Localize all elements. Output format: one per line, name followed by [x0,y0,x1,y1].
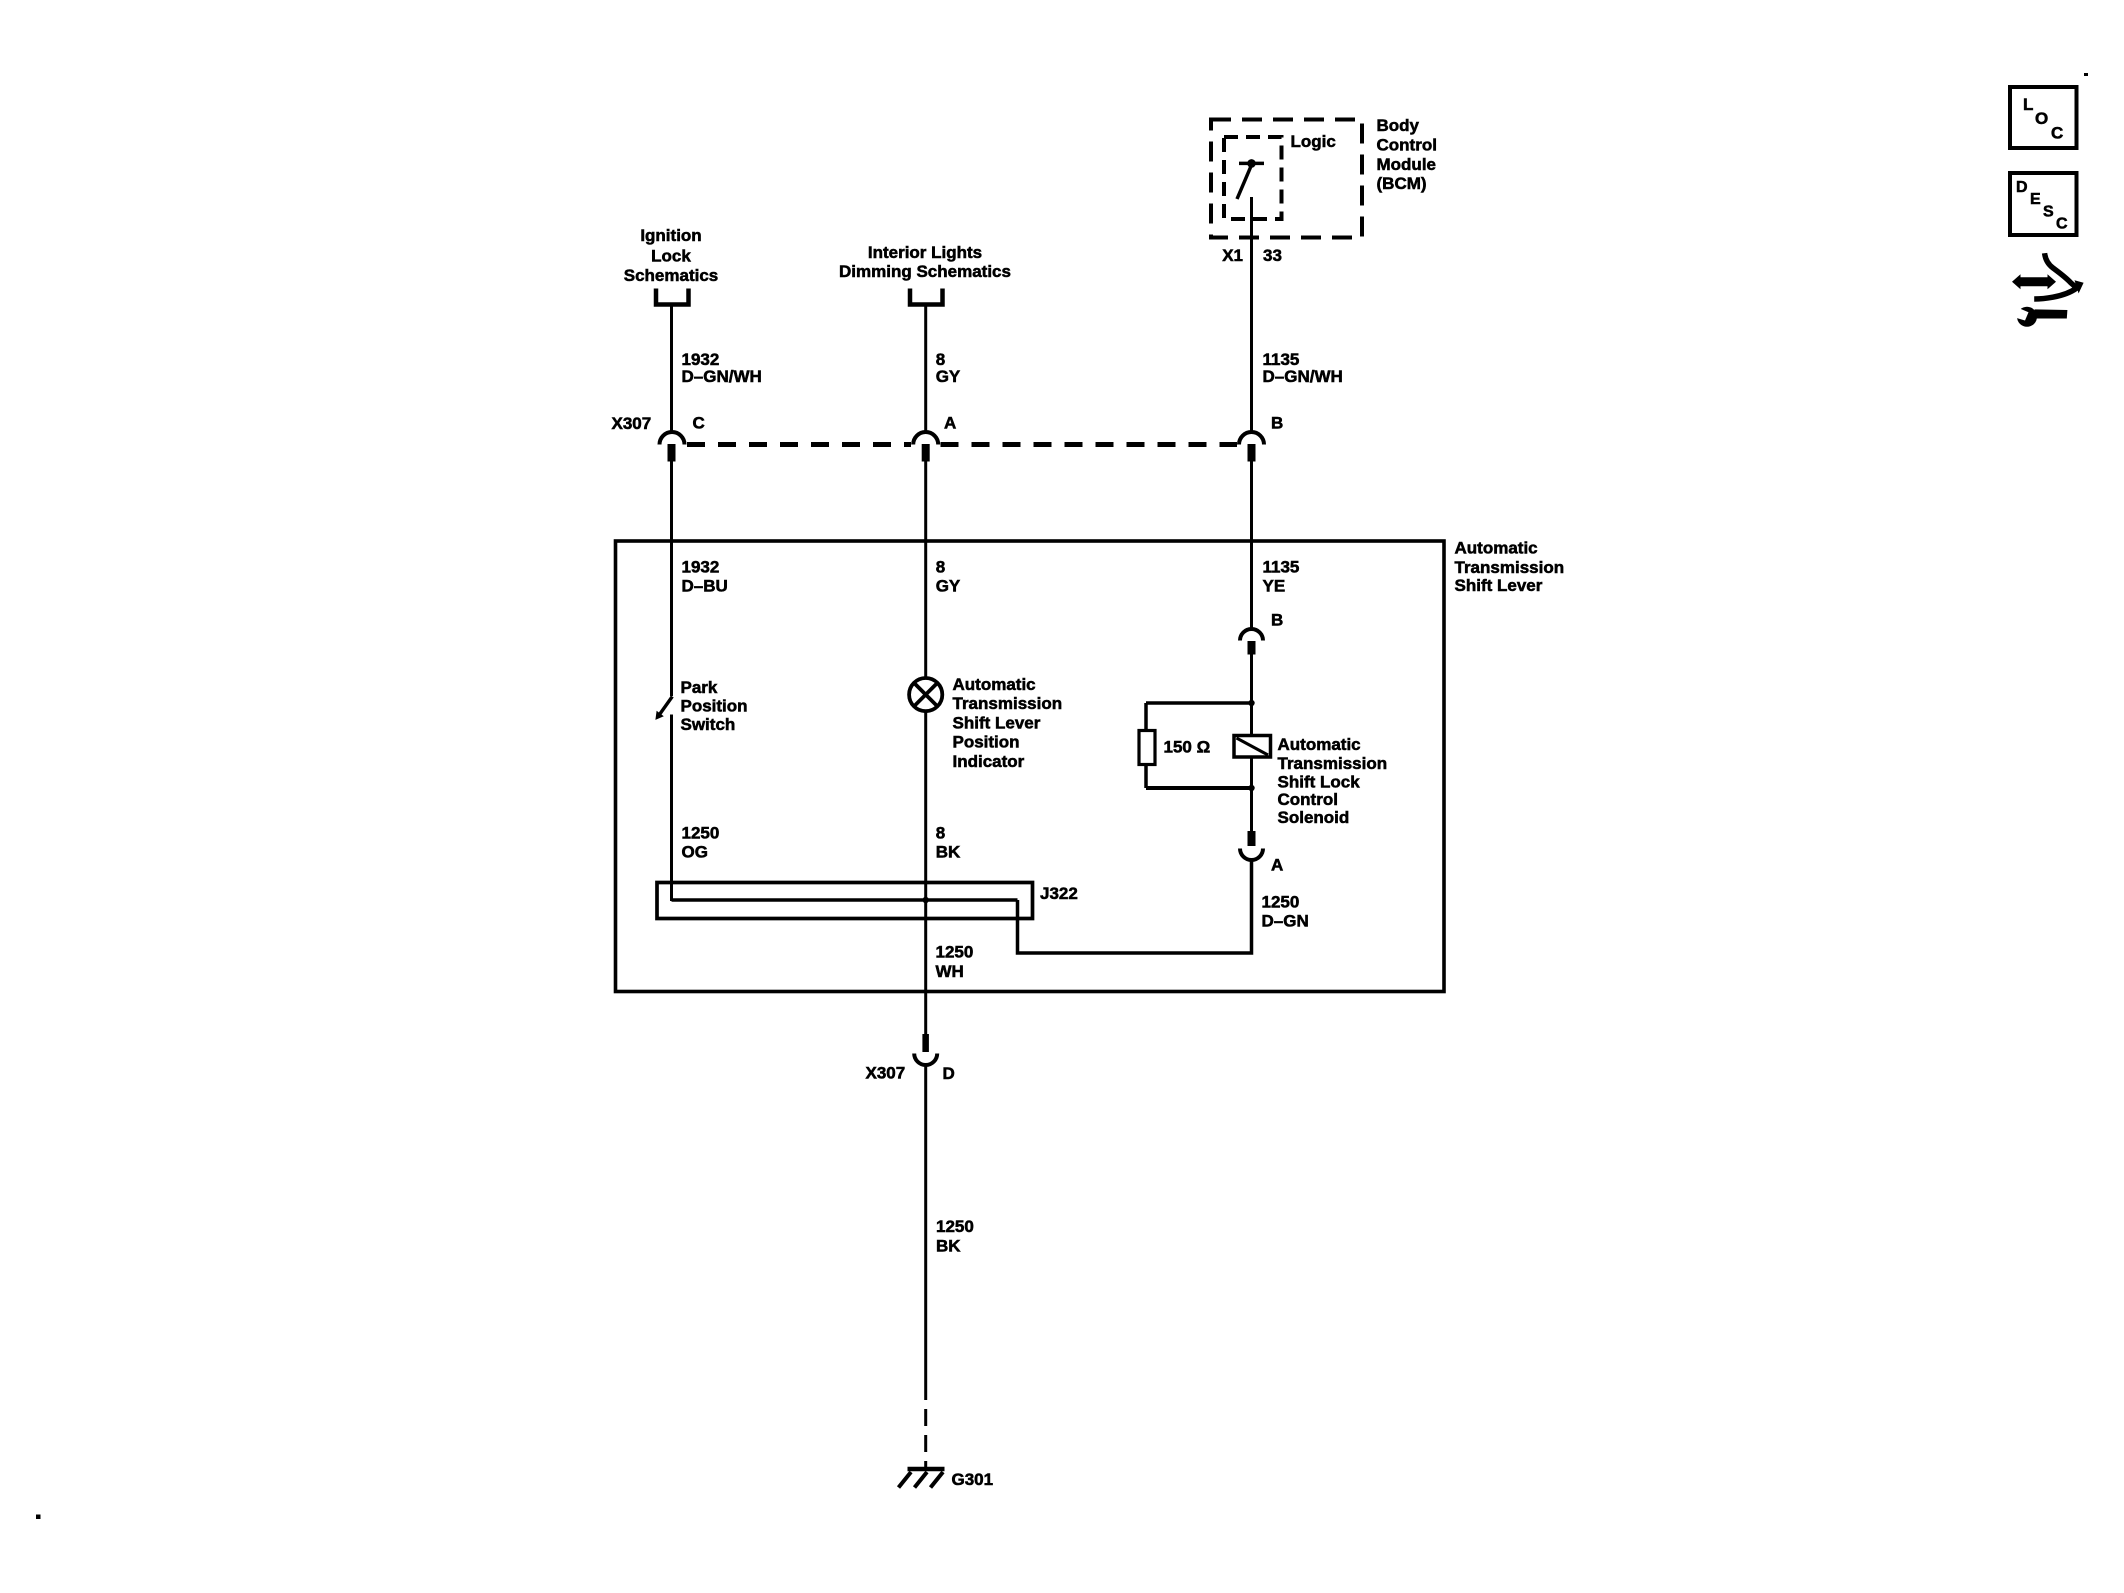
svg-text:Shift Lever: Shift Lever [1455,576,1543,595]
splice J322 inner bus wire [672,898,1018,902]
wire: X307 B down to connector B (shift lock solenoid) [1250,459,1253,628]
wire: interior lights stem down to X307 A [924,306,927,431]
connector X307 pin B [1239,432,1264,462]
wire: ignition lock stem down to X307 C [670,306,673,431]
svg-text:Schematics: Schematics [624,266,719,285]
switch: Park Position Switch [655,697,672,720]
svg-text:O: O [2035,109,2048,128]
node: junction at J322 [923,897,929,903]
node: top junction [1248,700,1254,706]
DESC navigation box [2010,173,2077,235]
svg-text:B: B [1271,414,1283,433]
svg-text:OG: OG [682,843,708,862]
svg-text:C: C [693,414,705,433]
svg-text:X307: X307 [866,1064,906,1083]
navigation icon: arrows and wrench [2012,253,2084,327]
svg-text:Transmission: Transmission [953,694,1063,713]
wire: park switch down to splice J322 [670,715,673,902]
svg-text:A: A [944,414,956,433]
svg-text:Control: Control [1278,790,1338,809]
svg-text:Automatic: Automatic [1455,538,1538,557]
svg-text:Module: Module [1377,155,1437,174]
label Automatic Transmission Shift Lever Position Indicator [953,675,1063,771]
svg-text:Body: Body [1377,116,1420,135]
switch (BCM internal driver) [1237,159,1264,199]
svg-text:150 Ω: 150 Ω [1164,738,1211,757]
node: bottom junction [1248,785,1254,791]
component box: Automatic Transmission Shift Lever [616,541,1445,992]
connector pin B (solenoid) [1240,629,1263,655]
svg-text:Ignition: Ignition [640,226,701,245]
svg-text:D: D [943,1064,955,1083]
off-page connector bracket (Interior Lights) [910,289,943,305]
speck top right [2084,73,2088,76]
svg-text:C: C [2056,216,2068,233]
svg-text:G301: G301 [952,1470,994,1489]
svg-text:X307: X307 [612,414,652,433]
svg-text:(BCM): (BCM) [1377,174,1427,193]
svg-text:Shift Lever: Shift Lever [953,713,1041,732]
label Park Position Switch [681,678,748,734]
connector X307 dashed line [687,442,911,447]
LOC navigation box [2010,87,2077,148]
svg-text:D–BU: D–BU [682,577,728,596]
resistor branch top wire [1146,701,1252,705]
resistor branch bottom wire [1146,786,1252,790]
svg-text:Position: Position [681,696,748,715]
svg-text:A: A [1271,856,1283,875]
label Automatic Transmission Shift Lever [1455,538,1565,595]
svg-text:1250: 1250 [936,1217,974,1236]
splice J322 outer shell [657,883,1033,919]
connector pin A (solenoid) [1240,831,1263,860]
svg-text:Control: Control [1377,135,1437,154]
svg-text:B: B [1271,611,1283,630]
resistor branch left wire [1144,703,1148,788]
wire: BCM output down to X307 B [1250,197,1253,431]
svg-text:D: D [2016,179,2028,196]
svg-text:8: 8 [936,558,945,577]
svg-text:BK: BK [936,1236,961,1255]
wire: X307 D down to ground [924,1067,927,1401]
svg-text:D–GN/WH: D–GN/WH [1263,367,1343,386]
label Body Control Module (BCM) [1377,116,1437,193]
svg-text:1250: 1250 [1262,893,1300,912]
svg-text:Transmission: Transmission [1278,754,1388,773]
svg-text:Switch: Switch [681,715,736,734]
svg-text:Automatic: Automatic [953,675,1036,694]
connector X307 pin D [914,1034,937,1065]
off-page connector bracket (Ignition Lock) [656,289,689,305]
off-page reference label: Interior Lights Dimming Schematics [839,243,1011,281]
svg-text:S: S [2043,204,2054,221]
wire: connector B down to solenoid [1250,655,1253,832]
svg-text:1135: 1135 [1263,558,1300,577]
svg-text:YE: YE [1263,577,1286,596]
connector X307 pin A [913,432,938,462]
BCM inner dashed logic box [1224,137,1282,219]
svg-text:Park: Park [681,678,718,697]
svg-text:X1: X1 [1222,246,1243,265]
svg-text:8: 8 [936,823,945,842]
label Automatic Transmission Shift Lock Control Solenoid [1278,735,1388,827]
svg-text:Solenoid: Solenoid [1278,808,1350,827]
connector X307 pin C [660,432,685,462]
off-page reference label: Ignition Lock Schematics [624,226,719,285]
wire: solenoid A down and left to splice J322 [1018,861,1252,953]
svg-text:33: 33 [1263,246,1282,265]
resistor R 150 ohm [1139,731,1155,765]
svg-text:D–GN: D–GN [1262,912,1309,931]
svg-text:L: L [2023,95,2033,114]
wire: X307 C down to park switch [670,459,673,696]
svg-text:GY: GY [936,577,961,596]
svg-text:Automatic: Automatic [1278,735,1361,754]
wire: X307 A down to indicator lamp [924,459,927,677]
svg-text:Logic: Logic [1291,132,1336,151]
svg-text:E: E [2030,191,2041,208]
wire: dashed lead to ground [924,1409,927,1468]
svg-text:Interior Lights: Interior Lights [868,243,982,262]
ground G301 [899,1469,945,1488]
svg-text:J322: J322 [1040,884,1078,903]
svg-text:WH: WH [936,962,964,981]
svg-text:Dimming Schematics: Dimming Schematics [839,262,1011,281]
svg-text:1250: 1250 [936,942,974,961]
svg-text:Transmission: Transmission [1455,558,1565,577]
wire: lamp down through splice J322 to X307 D [924,713,927,1035]
svg-text:BK: BK [936,843,961,862]
solenoid: Automatic Transmission Shift Lock Control Solenoid [1234,736,1271,758]
speck bottom left [36,1515,41,1520]
svg-text:C: C [2051,124,2063,143]
module U1: Body Control Module (BCM) outer dashed box [1211,120,1362,238]
svg-text:D–GN/WH: D–GN/WH [682,367,762,386]
svg-text:Lock: Lock [651,247,691,266]
svg-text:Shift Lock: Shift Lock [1278,773,1361,792]
lamp: Automatic Transmission Shift Lever Position Indicator [909,678,942,711]
svg-text:Indicator: Indicator [953,752,1025,771]
svg-text:Position: Position [953,733,1020,752]
svg-text:1250: 1250 [682,823,720,842]
svg-text:GY: GY [936,367,961,386]
svg-text:1932: 1932 [682,558,720,577]
